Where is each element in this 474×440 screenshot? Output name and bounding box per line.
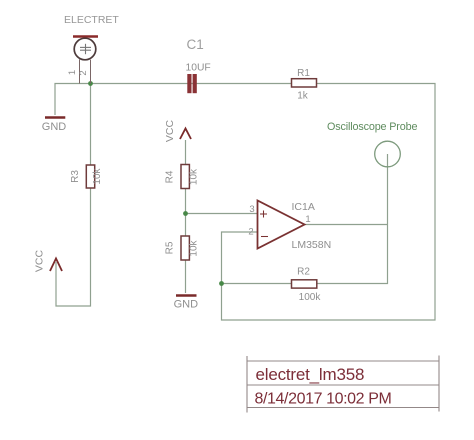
electret microphone MIC1 pin 1 bbox=[79, 59, 81, 83]
svg-text:R5: R5 bbox=[165, 241, 176, 254]
resistor R4 body bbox=[181, 165, 189, 189]
node junction mic pin2 / C1 bbox=[88, 81, 93, 86]
node junction pin2/R2/feedback bbox=[219, 281, 224, 286]
wire net N$1 mic pin1 to GND segment bbox=[55, 84, 91, 116]
ground GND1 bar bbox=[45, 116, 65, 118]
svg-text:10UF: 10UF bbox=[186, 63, 211, 74]
svg-text:2: 2 bbox=[78, 70, 89, 75]
wire middle column VCC R4 R5 GND bbox=[185, 140, 187, 293]
wire bias node to op-amp pin3 bbox=[186, 213, 258, 215]
electret microphone MIC1 body circle bbox=[74, 38, 96, 60]
wire op-amp output to probe line bbox=[305, 224, 388, 226]
svg-text:R3: R3 bbox=[70, 170, 81, 183]
svg-text:R4: R4 bbox=[165, 170, 176, 183]
ground GND2 bar bbox=[176, 294, 197, 296]
svg-text:3: 3 bbox=[249, 204, 254, 215]
svg-text:VCC: VCC bbox=[34, 249, 46, 272]
title block frame lines bbox=[247, 356, 439, 413]
svg-text:C1: C1 bbox=[187, 37, 204, 52]
wire R2 row feedback net bbox=[222, 154, 388, 284]
svg-text:VCC: VCC bbox=[164, 119, 176, 142]
svg-text:2: 2 bbox=[248, 227, 253, 238]
supply symbol VCC1 arrow bbox=[50, 259, 62, 272]
electret microphone MIC1 top plate bar bbox=[73, 35, 98, 38]
op-amp IC1A plus sign bbox=[260, 211, 267, 218]
svg-text:8/14/2017 10:02 PM: 8/14/2017 10:02 PM bbox=[255, 391, 392, 408]
electret microphone MIC1 pin 2 bbox=[90, 60, 92, 84]
svg-text:1k: 1k bbox=[297, 91, 309, 102]
op-amp IC1A minus sign bbox=[261, 236, 268, 238]
wire R3 column down to VCC1 bbox=[56, 84, 91, 307]
svg-text:10k: 10k bbox=[189, 239, 200, 256]
resistor R2 body bbox=[292, 280, 317, 288]
svg-text:Oscilloscope Probe: Oscilloscope Probe bbox=[327, 121, 417, 133]
svg-text:10k: 10k bbox=[189, 168, 200, 185]
resistor R5 body bbox=[181, 236, 189, 260]
svg-text:1: 1 bbox=[305, 214, 310, 225]
svg-text:LM358N: LM358N bbox=[292, 239, 332, 251]
svg-text:100k: 100k bbox=[299, 292, 322, 303]
svg-text:IC1A: IC1A bbox=[292, 201, 315, 213]
supply symbol VCC2 arrow bbox=[180, 129, 191, 140]
node junction R4/R5/pin3 bias bbox=[183, 211, 188, 216]
resistor R3 body bbox=[86, 165, 94, 188]
capacitor C1 plates bbox=[187, 74, 197, 93]
svg-text:1: 1 bbox=[67, 70, 78, 75]
svg-text:ELECTRET: ELECTRET bbox=[64, 14, 119, 26]
svg-text:R2: R2 bbox=[297, 267, 310, 278]
svg-text:GND: GND bbox=[174, 299, 199, 311]
wire main top net mic pin2 to C1 to R1 to right side bbox=[91, 84, 436, 321]
electret microphone MIC1 inner capacitor plates bbox=[80, 44, 91, 54]
svg-text:GND: GND bbox=[42, 121, 67, 133]
oscilloscope probe circle bbox=[375, 141, 401, 167]
resistor R1 body bbox=[292, 79, 317, 87]
svg-text:10k: 10k bbox=[92, 167, 103, 184]
svg-text:R1: R1 bbox=[297, 68, 310, 79]
op-amp IC1A triangle bbox=[258, 201, 305, 249]
svg-text:electret_lm358: electret_lm358 bbox=[256, 365, 365, 384]
